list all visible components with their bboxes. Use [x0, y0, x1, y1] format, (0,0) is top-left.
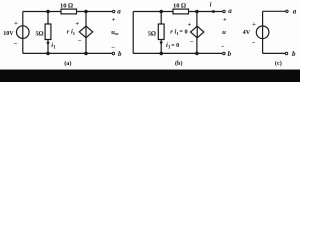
svg-text:b: b	[118, 50, 122, 58]
wire through diamond (a)	[85, 26, 87, 38]
resistor 5ohm (b)	[158, 24, 164, 40]
resistor 5ohm (a)	[45, 24, 51, 40]
wire (a) top left segment	[23, 11, 61, 13]
svg-text:+: +	[112, 17, 116, 24]
svg-text:5Ω: 5Ω	[35, 30, 43, 37]
junction dot (a) bottom 5ohm	[46, 52, 50, 56]
wire (b) 5ohm branch	[160, 12, 162, 54]
wire (a) left branch	[22, 12, 24, 54]
svg-text:i: i	[210, 1, 212, 8]
svg-text:+: +	[252, 21, 256, 28]
current arrow i1=0 (b)	[160, 42, 163, 46]
current arrow i1 (a)	[46, 42, 49, 46]
junction dot (a) top 5ohm	[46, 10, 50, 14]
wire through source (c)	[262, 26, 264, 39]
terminal b (b)	[223, 52, 225, 54]
svg-text:10V: 10V	[3, 31, 14, 37]
svg-text:1: 1	[73, 31, 76, 36]
svg-text:−: −	[78, 38, 82, 45]
wire (b) left branch	[132, 12, 134, 54]
svg-text:b: b	[292, 50, 296, 58]
svg-text:a: a	[293, 7, 297, 15]
resistor 10ohm (a)	[61, 9, 77, 14]
svg-text:−: −	[221, 44, 225, 51]
svg-text:10 Ω: 10 Ω	[60, 2, 73, 9]
current arrow i (b)	[210, 10, 215, 14]
wire (a) top right segment	[77, 11, 113, 13]
svg-text:+: +	[187, 21, 191, 28]
svg-text:(c): (c)	[275, 60, 282, 67]
junction dot (a) top diamond	[84, 10, 88, 14]
svg-text:4V: 4V	[243, 29, 251, 36]
junction dot (b) bottom 5ohm	[159, 52, 163, 56]
wire (a) bottom	[23, 52, 113, 54]
dependent source diamond (a)	[79, 26, 92, 38]
svg-text:10 Ω: 10 Ω	[173, 2, 186, 9]
svg-text:5Ω: 5Ω	[148, 30, 156, 37]
svg-text:= 0: = 0	[171, 43, 179, 49]
svg-text:a: a	[117, 8, 121, 16]
wire (a) diamond branch	[85, 12, 87, 54]
svg-text:(b): (b)	[175, 60, 183, 67]
wire through source (a)	[22, 26, 24, 39]
junction dot (a) bottom diamond	[84, 52, 88, 56]
wire (b) diamond branch	[196, 12, 198, 54]
terminal a (a)	[113, 10, 115, 12]
svg-text:−: −	[13, 40, 17, 47]
junction dot (b) bottom diamond	[195, 52, 199, 56]
junction dot (b) top 5ohm	[159, 10, 163, 14]
wire (b) top left segment	[133, 11, 173, 13]
terminal a (c)	[286, 10, 288, 12]
wire (b) top right segment	[189, 11, 224, 13]
terminal b (a)	[112, 52, 114, 54]
wire (b) bottom	[133, 52, 223, 54]
wire through diamond (b)	[196, 26, 198, 38]
junction dot (b) top diamond	[195, 10, 199, 14]
svg-text:+: +	[75, 21, 79, 28]
wire (c) left branch	[262, 11, 264, 53]
svg-text:a: a	[228, 7, 232, 15]
wire (c) bottom	[263, 52, 286, 54]
svg-text:oc: oc	[115, 31, 119, 36]
svg-text:1: 1	[53, 45, 56, 50]
voltage source 10V circle (a)	[17, 26, 30, 39]
resistor 10ohm (b)	[173, 9, 189, 14]
wire (a) 5ohm branch	[47, 12, 49, 54]
svg-text:(a): (a)	[64, 60, 71, 67]
terminal a (b)	[223, 10, 225, 12]
svg-text:b: b	[228, 50, 232, 58]
svg-text:−: −	[111, 44, 115, 51]
svg-text:−: −	[190, 39, 194, 46]
terminal b (c)	[285, 52, 287, 54]
svg-text:u: u	[222, 29, 226, 36]
svg-text:+: +	[14, 20, 18, 27]
dependent source diamond (b)	[191, 26, 204, 38]
svg-text:= 0: = 0	[179, 29, 187, 36]
scan black band bottom	[0, 69, 300, 70]
voltage source 4V circle (c)	[256, 26, 269, 39]
wire (c) top	[263, 10, 286, 12]
svg-text:−: −	[252, 40, 256, 47]
svg-text:+: +	[223, 16, 227, 23]
